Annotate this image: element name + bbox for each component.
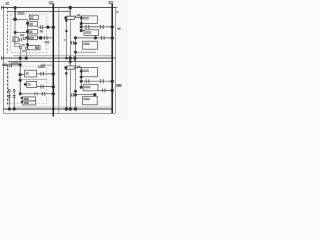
label smudge cluster b — [22, 44, 25, 46]
node dot — [69, 108, 72, 111]
wire vertical thin x15 — [14, 19, 16, 45]
wire vertical x75 — [75, 38, 77, 58]
dashed enclosure bottom-left — [8, 66, 47, 103]
node dot — [47, 26, 50, 29]
label smudge — [40, 30, 43, 32]
dashed enclosure top-left — [11, 14, 47, 53]
lamp circle — [23, 37, 26, 40]
wire vertical to rail3 b — [20, 49, 22, 58]
wire contact run B — [37, 36, 53, 40]
box K3 — [28, 30, 38, 34]
box U2b — [83, 84, 98, 90]
box small left — [13, 37, 18, 42]
capacitor C2 — [70, 93, 95, 97]
node dot — [65, 57, 67, 59]
node dot — [39, 36, 42, 39]
box U3 — [83, 41, 98, 49]
text label right margin 2 — [117, 28, 120, 30]
wire vertical branch — [80, 68, 82, 88]
box T6 — [23, 97, 36, 101]
node dot — [74, 51, 76, 53]
wire vertical branch — [80, 18, 82, 31]
node dot — [26, 44, 28, 46]
dashed bus top-left — [6, 8, 8, 53]
node dot A — [14, 18, 17, 21]
dashed bus bold left — [7, 65, 9, 105]
node dot — [26, 22, 28, 24]
wire drop top-left — [14, 8, 16, 20]
wire vertical mid branch lower — [69, 69, 71, 109]
node dot — [80, 76, 82, 78]
label smudge cluster a — [20, 34, 24, 36]
text label DF — [45, 41, 50, 43]
node dot right bus — [111, 37, 114, 40]
node dot — [19, 64, 22, 67]
node dot — [74, 108, 77, 111]
node dot — [65, 108, 68, 111]
wire stub top right — [112, 7, 117, 9]
text label 1.1F — [12, 62, 19, 64]
wire contact run A — [38, 25, 54, 29]
wire vertical left branch — [65, 19, 67, 58]
wire stub — [20, 74, 25, 76]
node dot on bus rail5 — [52, 108, 54, 110]
wire stub down — [94, 95, 96, 97]
frame left border — [3, 8, 5, 114]
node dot v66 y31 — [66, 30, 68, 32]
box K2 — [29, 22, 38, 27]
connector circle — [25, 47, 27, 49]
node dot right bus — [111, 26, 114, 29]
wire run y52 — [76, 51, 97, 53]
wire vertical x75 — [75, 58, 77, 109]
wire coil to box — [75, 67, 81, 69]
node dot CB entry — [24, 83, 26, 85]
node dot on bus — [52, 73, 55, 76]
node dot v66 mid — [65, 72, 67, 74]
node dot — [74, 42, 76, 44]
node dot — [74, 94, 76, 96]
text label 1R top-center — [49, 1, 54, 4]
node dot — [80, 22, 82, 24]
frame right border — [115, 8, 117, 114]
node dot — [14, 31, 16, 33]
wire vertical to rail3 — [25, 50, 27, 59]
node dot — [25, 57, 28, 60]
node dot right bus — [111, 89, 114, 92]
node dot — [19, 93, 21, 95]
node dot on bus — [52, 92, 55, 95]
terminal ticks top-left — [1, 6, 3, 9]
wire contact run — [37, 72, 54, 76]
node dot v66 top — [65, 20, 67, 22]
wire drop to coil — [69, 8, 71, 17]
label smudge — [77, 66, 81, 68]
wire run y38 — [76, 36, 113, 40]
text label right margin 3 — [116, 84, 121, 87]
node dot — [19, 73, 22, 76]
wire rail pre-bottom faint — [13, 106, 112, 108]
node dot box1 entry — [80, 17, 82, 19]
node dot — [26, 37, 28, 39]
node dot — [74, 90, 76, 92]
box U2 — [84, 30, 98, 36]
wire drop — [69, 58, 71, 66]
node dot T7 — [21, 101, 23, 103]
node dot — [13, 108, 16, 111]
wire contact run to right bus — [81, 25, 112, 29]
label smudge — [77, 14, 81, 16]
bus right vertical — [111, 4, 113, 114]
wire stub — [81, 86, 83, 88]
box K4 — [28, 36, 38, 40]
wire feed — [7, 63, 20, 68]
capacitor leg 1 — [8, 91, 11, 109]
node dot rail3 — [74, 57, 77, 60]
text label 1A top-left — [5, 2, 9, 5]
text label — [38, 66, 45, 68]
node dot — [19, 79, 22, 82]
node dot on bus — [52, 26, 55, 29]
wire y32.3 — [15, 31, 27, 33]
node dot rail3 — [69, 57, 72, 60]
node dot coil left — [65, 66, 67, 68]
box T7 — [23, 101, 36, 105]
node dot — [94, 93, 97, 96]
wire contact short — [40, 64, 53, 67]
node dot T6 — [21, 97, 23, 99]
lamp circle 2 — [20, 46, 22, 48]
wire contact run — [37, 85, 54, 89]
node dot — [19, 57, 22, 60]
box CB — [27, 81, 37, 87]
marks — [20, 38, 22, 41]
text label 13B — [17, 12, 24, 14]
node dot — [80, 29, 82, 31]
wire rail pre-mid faint — [13, 55, 112, 57]
box U1b — [82, 68, 98, 77]
node dot on bus — [52, 85, 55, 88]
wire rail L4 — [8, 61, 113, 63]
wire stub box2 bottom — [95, 35, 97, 38]
label smudge small — [22, 50, 25, 52]
wire contact run to right bus — [81, 79, 112, 83]
wire contact run — [20, 92, 53, 96]
wire stub — [81, 30, 84, 32]
node dot rail4 — [69, 60, 71, 62]
bus center vertical — [52, 4, 54, 117]
wire link rails — [74, 58, 76, 62]
node dot right bus — [111, 80, 114, 83]
frame bottom border — [4, 112, 116, 114]
node dot — [8, 108, 11, 111]
wire bus internal vertical — [27, 20, 29, 49]
box CA — [25, 70, 37, 77]
wire vertical mid branch — [69, 19, 71, 58]
capacitor C1 — [70, 41, 75, 45]
box K1 — [29, 15, 38, 19]
node dot — [80, 80, 82, 82]
node dot rail1 x15 — [14, 6, 16, 8]
node dot — [80, 26, 82, 28]
box K5 — [28, 46, 40, 50]
wire vertical x20 — [19, 58, 21, 94]
capacitor leg 2 — [13, 91, 16, 109]
connector circles bottom-left feed — [3, 64, 7, 66]
text label right margin 1 — [116, 11, 119, 13]
coil Y2 parallelogram — [65, 66, 75, 69]
node dot — [80, 70, 82, 72]
node dot — [94, 37, 97, 40]
node dot top rail — [69, 6, 72, 9]
wire horiz — [12, 19, 27, 21]
box small lower — [15, 44, 20, 47]
box U3b — [83, 96, 98, 105]
wire rail L1 top — [1, 7, 116, 9]
terminal ticks mid-left — [1, 56, 3, 59]
mark left — [64, 39, 66, 41]
box U1 — [82, 16, 98, 24]
wire rail L5 bottom — [4, 108, 113, 110]
wire coil to box — [75, 17, 81, 19]
node dot — [74, 37, 77, 40]
connector circles — [8, 89, 15, 91]
node dot coil left — [65, 17, 67, 19]
wire vertical branch left — [65, 69, 67, 109]
node dot — [26, 30, 28, 32]
text label 1A top-right — [108, 1, 113, 4]
wire run y79.6 — [20, 79, 46, 81]
wire contact run — [98, 88, 112, 92]
frame inner divider — [58, 8, 60, 114]
wire rail L2 — [7, 11, 70, 13]
coil Y1 parallelogram — [65, 16, 76, 19]
node dot — [80, 86, 82, 88]
wire rail L3 mid — [1, 57, 116, 59]
